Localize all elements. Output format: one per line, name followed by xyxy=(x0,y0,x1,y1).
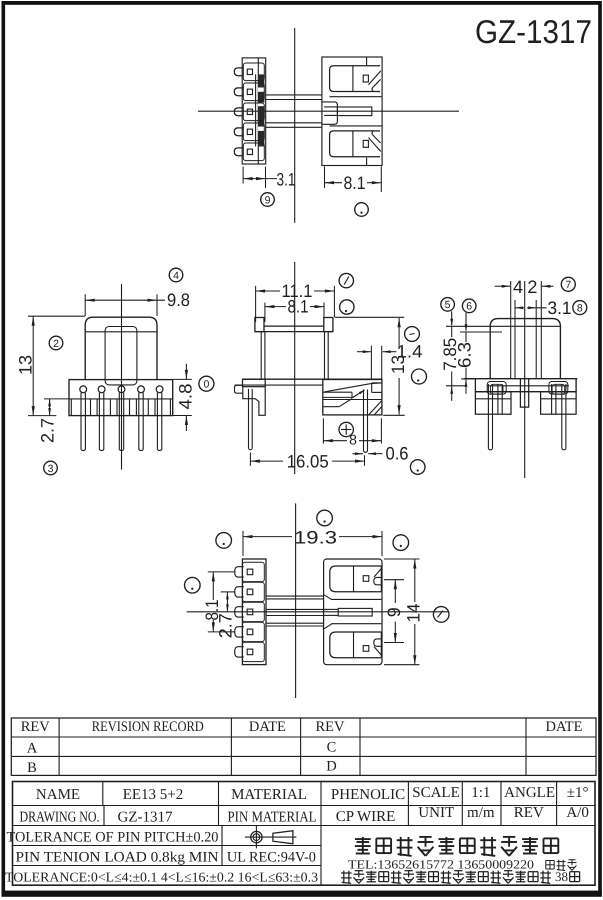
svg-text:0: 0 xyxy=(203,378,209,390)
side view: wire leader arrow xyxy=(352,390,364,398)
page frame border xyxy=(2,1,6,897)
svg-text:3.1: 3.1 xyxy=(277,169,296,189)
bottom view: dimension 8.1 xyxy=(208,571,236,573)
svg-text:UNIT: UNIT xyxy=(418,805,454,821)
bottom view: ref bubble right xyxy=(433,607,449,623)
svg-text:9.8: 9.8 xyxy=(167,290,190,310)
top view: pin header body xyxy=(242,58,266,164)
wire gauge symbol xyxy=(251,831,262,842)
bottom view: header pins xyxy=(235,567,244,577)
svg-text:±1°: ±1° xyxy=(567,785,589,801)
svg-text:16.05: 16.05 xyxy=(287,451,329,471)
end view: pins xyxy=(487,384,489,449)
top view: header pins xyxy=(234,68,243,76)
title block grid xyxy=(13,782,596,886)
svg-text:C: C xyxy=(327,740,337,756)
svg-text:13: 13 xyxy=(15,355,35,375)
side view: ref bubble right lower xyxy=(412,369,427,384)
side view: ref bubble slash xyxy=(339,273,353,287)
svg-text:0.6: 0.6 xyxy=(386,444,409,464)
svg-text:SCALE: SCALE xyxy=(412,785,460,801)
front view: ref bubble 4 xyxy=(169,268,183,282)
top view: header pin units xyxy=(243,63,264,81)
front view: dimension 13 xyxy=(28,315,85,317)
bottom view: dimension 9 xyxy=(384,579,404,581)
top view: dimension 3.1 xyxy=(242,167,244,184)
front view: dimension 9.8 xyxy=(84,294,86,316)
svg-text:2.7: 2.7 xyxy=(37,418,57,443)
top view: ref bubble 9 xyxy=(261,193,275,207)
side view: base plate xyxy=(243,378,382,380)
svg-text:5: 5 xyxy=(445,299,451,311)
bottom view: dimension 14 xyxy=(384,558,420,560)
front view: ref bubble 3 xyxy=(44,461,58,475)
end view: dimension 4.2 xyxy=(510,281,512,379)
svg-text:REVISION RECORD: REVISION RECORD xyxy=(92,719,204,735)
svg-text:PIN MATERIAL: PIN MATERIAL xyxy=(228,810,317,826)
svg-text:PHENOLIC: PHENOLIC xyxy=(331,787,405,803)
front view: base flange xyxy=(69,380,173,416)
side view: wire bar xyxy=(323,391,352,393)
svg-text:NAME: NAME xyxy=(36,787,80,803)
side view: left pin stub xyxy=(235,385,243,393)
top view: ref bubble (faint) xyxy=(355,203,369,217)
svg-text:REV: REV xyxy=(514,805,544,821)
svg-text:DRAWING NO.: DRAWING NO. xyxy=(20,810,100,826)
svg-text:A: A xyxy=(27,741,38,757)
end view: body outline xyxy=(490,319,560,379)
end view: dimension 3.1 xyxy=(514,300,516,379)
end view: base plate xyxy=(464,378,578,380)
bottom view: ref bubbles faint xyxy=(216,533,232,549)
bottom view: dimension 19.3 xyxy=(242,531,244,556)
svg-text:B: B xyxy=(27,760,37,776)
svg-text:ANGLE: ANGLE xyxy=(504,785,555,801)
side view: dimension 11.1 xyxy=(255,286,257,322)
svg-text:13: 13 xyxy=(388,355,408,374)
bottom view: dimension 2.7 xyxy=(221,591,236,593)
side view: left pin bracket xyxy=(243,387,265,416)
side view: left pin xyxy=(248,389,250,449)
side view: dimension 13 right xyxy=(335,316,404,318)
end view: center stub xyxy=(520,379,528,407)
end view: pin bosses xyxy=(487,382,506,395)
svg-text:8.1: 8.1 xyxy=(344,173,366,193)
side view: right pin xyxy=(363,390,365,452)
end view vertical centerline xyxy=(524,281,526,478)
top view: bobbin body side profile xyxy=(322,57,382,166)
svg-text:DATE: DATE xyxy=(249,719,286,735)
front view: dimension 2.7 xyxy=(44,398,69,400)
front view vertical centerline xyxy=(121,284,123,470)
top view: header slot dark strip xyxy=(258,74,264,146)
svg-text:REV: REV xyxy=(21,719,51,735)
revision table grid xyxy=(11,718,596,775)
svg-text:GZ-1317: GZ-1317 xyxy=(118,810,173,826)
end view: ref bubble 5 with leader xyxy=(441,298,455,312)
bottom view: connecting rails xyxy=(266,595,324,597)
side view: ref bubble dot xyxy=(340,300,354,314)
svg-text:m/m: m/m xyxy=(467,805,495,821)
end view: 6.3 extension line xyxy=(460,331,502,333)
top view: winding slot middle xyxy=(330,96,383,98)
bottom view: bobbin body outline xyxy=(324,559,382,665)
svg-text:REV: REV xyxy=(316,719,346,735)
svg-text:TOLERANCE OF PIN PITCH±0.20: TOLERANCE OF PIN PITCH±0.20 xyxy=(7,830,219,846)
side view: dimension 8 bottom xyxy=(322,418,324,443)
front view: pins xyxy=(80,393,82,450)
svg-text:4.8: 4.8 xyxy=(175,384,195,410)
svg-text:3.1: 3.1 xyxy=(548,298,572,318)
bottom view horizontal centerline xyxy=(187,611,449,613)
front view: winding window xyxy=(105,327,137,385)
side view: hook wedges xyxy=(369,401,382,415)
company address line (Chinese pseudo-glyphs) xyxy=(341,872,352,874)
svg-text:D: D xyxy=(326,759,336,775)
side view: winding start mark circled plus xyxy=(339,422,353,436)
front view: ref bubble 2 xyxy=(49,336,63,350)
svg-text:3: 3 xyxy=(48,463,54,475)
side view: terminal block xyxy=(323,380,382,415)
svg-text:4: 4 xyxy=(173,270,179,282)
svg-text:19.3: 19.3 xyxy=(294,527,337,547)
svg-text:9: 9 xyxy=(265,194,271,206)
svg-text:TEL:13652615772 13650009220: TEL:13652615772 13650009220 xyxy=(348,858,534,872)
top view: dimension 8.1 xyxy=(324,166,326,188)
end view: ref bubble 7 xyxy=(561,277,575,291)
svg-text:PIN TENION LOAD 0.8kg MIN: PIN TENION LOAD 0.8kg MIN xyxy=(16,850,220,866)
svg-text:8.1: 8.1 xyxy=(288,296,309,316)
front view: base slots xyxy=(70,399,72,416)
front view: dimension 4.8 xyxy=(173,378,192,380)
svg-text:GZ-1317: GZ-1317 xyxy=(475,13,592,50)
side view vertical centerline xyxy=(294,262,296,474)
front view: bobbin body outline xyxy=(85,317,157,379)
svg-text:14: 14 xyxy=(404,604,424,623)
svg-text:EE13 5+2: EE13 5+2 xyxy=(123,787,184,803)
svg-text:2: 2 xyxy=(53,338,59,350)
end view: body top line / 7.85 extension xyxy=(446,325,560,327)
bottom view: pin header body xyxy=(242,559,266,665)
svg-text:7: 7 xyxy=(565,279,571,291)
svg-text:2: 2 xyxy=(527,277,537,297)
bottom view: middle slot xyxy=(331,598,381,600)
top view: connecting rails xyxy=(266,94,322,96)
side view: dimension 16.05 xyxy=(249,453,251,466)
svg-text:TOLERANCE:0<L≤4:±0.1 4<L≤16:±: TOLERANCE:0<L≤4:±0.1 4<L≤16:±0.2 16<L≤63… xyxy=(5,869,318,884)
front view: ref bubble 0 xyxy=(199,376,214,391)
svg-text:4: 4 xyxy=(513,277,523,297)
svg-text:CP WIRE: CP WIRE xyxy=(336,809,396,825)
end view: ref bubble 8 xyxy=(573,301,587,315)
svg-text:9: 9 xyxy=(384,607,404,617)
company name (Chinese pseudo-glyphs) xyxy=(355,838,371,840)
top view: lower flange pocket xyxy=(330,131,380,157)
svg-text:UL REC:94V-0: UL REC:94V-0 xyxy=(227,850,316,866)
svg-text:6: 6 xyxy=(466,301,472,313)
side view: dimension 8.1 top xyxy=(264,303,266,323)
end view: dimension 6.3 xyxy=(465,332,467,342)
end view: ref bubble 6 with leader xyxy=(462,299,476,313)
top view: upper flange pocket xyxy=(330,66,380,92)
end view: dimension 7.85 xyxy=(451,326,453,337)
side view: ref bubble right upper xyxy=(405,327,420,342)
side view: top flange xyxy=(255,318,264,332)
svg-text:1:1: 1:1 xyxy=(471,785,490,801)
top view vertical centerline xyxy=(294,28,296,223)
side view: dimension 1.4 xyxy=(370,346,372,380)
svg-text:MATERIAL: MATERIAL xyxy=(231,787,307,803)
svg-text:8: 8 xyxy=(577,302,583,314)
svg-text:2.7: 2.7 xyxy=(216,613,236,638)
side view: dimension 0.6 xyxy=(352,453,363,455)
side view: tube walls xyxy=(260,332,262,380)
side view: ref bubble bottom right xyxy=(410,460,425,475)
svg-text:8: 8 xyxy=(349,432,357,448)
svg-text:6.3: 6.3 xyxy=(454,342,474,368)
bottom view vertical centerline xyxy=(295,503,297,698)
svg-text:DATE: DATE xyxy=(545,719,582,735)
front view: pin holes xyxy=(80,386,87,393)
svg-text:A/0: A/0 xyxy=(566,805,589,821)
bottom view: upper pocket xyxy=(330,566,382,592)
top view horizontal centerline xyxy=(198,110,459,112)
bottom view: lower pocket xyxy=(330,632,382,658)
end view: pin blocks xyxy=(475,392,511,415)
svg-text:38: 38 xyxy=(555,869,568,884)
